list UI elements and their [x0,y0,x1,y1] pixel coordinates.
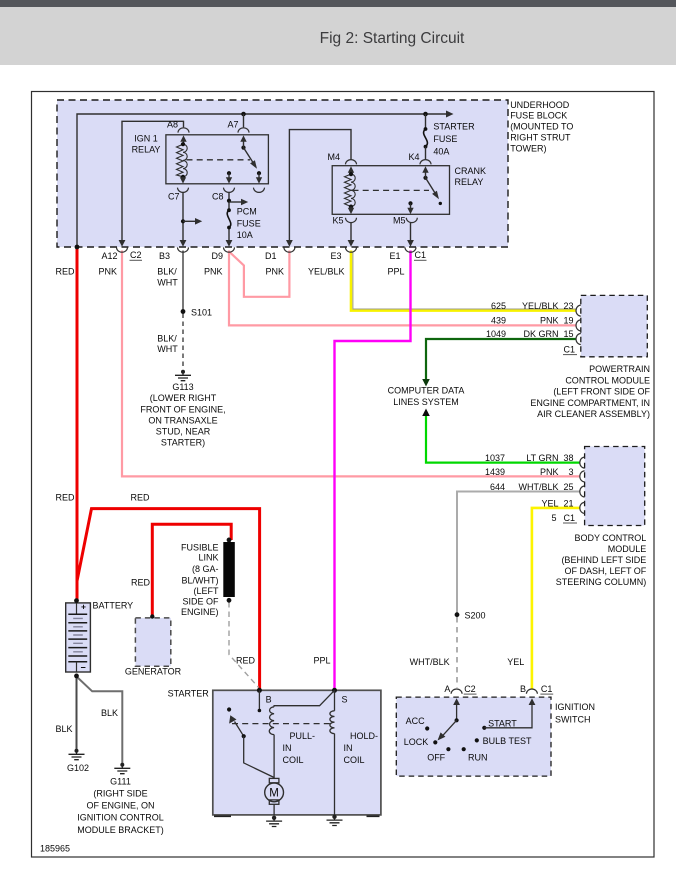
wire main feed [77,114,446,247]
relay CRANK switch blade [426,178,436,195]
ground G111 [120,763,124,767]
wire motor to ground [273,804,275,815]
svg-text:PULL-: PULL- [290,731,316,741]
svg-text:YEL/BLK: YEL/BLK [308,266,345,276]
svg-text:S: S [342,695,348,705]
arrow K5 out of relay [350,207,352,209]
arrow into pin D9 [226,240,233,247]
svg-text:A: A [444,684,450,694]
svg-text:SWITCH: SWITCH [555,715,591,725]
svg-text:439: 439 [491,315,506,325]
pull-in coil [269,707,274,735]
pin D1 cup [284,247,295,252]
relay box IGN 1 RELAY [166,135,269,184]
svg-text:FUSIBLE: FUSIBLE [181,543,219,553]
pin E1 cup [405,247,416,252]
module box BODY CONTROL MODULE [585,447,645,526]
svg-text:C1: C1 [564,513,576,523]
wire LT GRN BCM pin 38 to data lines [426,416,580,463]
pin M4 cup [346,160,357,165]
svg-text:1049: 1049 [486,329,506,339]
wire RED battery to starter B [77,509,260,690]
svg-text:A7: A7 [227,119,238,129]
pin K5 cup [346,218,357,223]
svg-text:ENGINE COMPARTMENT, IN: ENGINE COMPARTMENT, IN [530,398,650,408]
pin 3 cup [580,471,585,482]
pin E3 cup [346,247,357,252]
svg-text:RUN: RUN [468,753,488,763]
svg-text:STEERING COLUMN): STEERING COLUMN) [556,577,647,587]
module box POWERTRAIN CONTROL MODULE [581,295,648,356]
svg-text:IGNITION: IGNITION [555,702,595,712]
node ACC [425,726,429,730]
header dark bar [0,0,676,7]
wire PPL E1 to starter S [335,251,411,691]
svg-text:1037: 1037 [485,453,505,463]
pin A12 cup [117,247,128,252]
hold-in coil [330,711,335,734]
svg-text:FUSE BLOCK: FUSE BLOCK [510,111,567,121]
svg-text:E3: E3 [330,251,341,261]
svg-text:IN: IN [344,743,353,753]
svg-text:COMPUTER DATA: COMPUTER DATA [388,386,465,396]
svg-text:15: 15 [563,329,573,339]
svg-text:IN: IN [283,743,292,753]
svg-text:D9: D9 [211,251,223,261]
svg-text:WHT/BLK: WHT/BLK [410,657,450,667]
pin 21 cup [580,502,585,513]
svg-text:COIL: COIL [283,755,304,765]
svg-text:G102: G102 [67,763,89,773]
relay CRANK switch pivot [423,176,427,180]
svg-text:PCM: PCM [237,207,257,217]
generator box [135,618,170,666]
svg-text:21: 21 [563,498,573,508]
svg-text:E1: E1 [389,251,400,261]
arrow K4 into relay [425,172,427,178]
svg-text:UNDERHOOD: UNDERHOOD [510,100,570,110]
relay IGN1 switch blade [244,148,254,164]
relay CRANK contact M5 [408,201,412,205]
svg-text:FUSE: FUSE [433,134,457,144]
svg-text:BATTERY: BATTERY [93,600,134,610]
pin A7 cup [238,128,249,133]
svg-text:C7: C7 [168,191,180,201]
fuse PCM FUSE 10A [227,208,231,212]
node red tap [75,245,80,250]
wire PNK A12 to BCM pin 3 [122,251,580,477]
svg-text:PNK: PNK [540,467,559,477]
svg-text:625: 625 [491,301,506,311]
node RUN [462,747,466,751]
relay CRANK contact NO [439,202,442,205]
svg-text:OF ENGINE, ON: OF ENGINE, ON [86,801,154,811]
svg-text:RELAY: RELAY [132,144,161,154]
arrow A7 into relay [243,141,245,148]
wire BLK battery to G102 [76,677,78,749]
svg-text:YEL: YEL [507,657,524,667]
svg-text:START: START [488,719,517,729]
arrow C8 continues right [229,201,242,203]
svg-text:RIGHT STRUT: RIGHT STRUT [510,133,571,143]
svg-text:STARTER): STARTER) [161,437,205,447]
node fusible link top [227,538,232,543]
arrow up data lines [422,409,430,417]
svg-text:OF DASH, LEFT OF: OF DASH, LEFT OF [564,566,646,576]
svg-text:PPL: PPL [387,266,404,276]
relay IGN1 contact NO [257,171,261,175]
svg-text:LINK: LINK [198,553,218,563]
svg-text:23: 23 [563,301,573,311]
arrow C7 continues right [183,220,196,222]
svg-text:WHT/BLK: WHT/BLK [518,482,558,492]
starter dashed bar [232,723,334,725]
relay coil IGN1 zigzag [177,144,184,177]
fusible link bar [223,542,235,597]
svg-text:WHT: WHT [157,277,178,287]
svg-text:WHT: WHT [157,344,178,354]
battery plates [76,603,78,614]
svg-text:SIDE OF: SIDE OF [182,597,219,607]
svg-text:CRANK: CRANK [455,166,487,176]
node BULB TEST [475,738,479,742]
header gray bar [0,7,676,65]
svg-text:PNK: PNK [265,266,284,276]
svg-text:RED: RED [236,656,256,666]
pin 23 cup [576,305,581,316]
battery BATTERY [66,603,91,672]
pin 15 cup [576,334,581,345]
svg-text:19: 19 [563,315,573,325]
wire starter fuse drop [425,114,427,129]
arrow C7 out of relay [182,177,184,179]
svg-text:(MOUNTED TO: (MOUNTED TO [510,122,573,132]
svg-text:STARTER: STARTER [168,689,210,699]
pin C8 cup [224,188,235,193]
wire A7 drop [243,114,245,127]
relay IGN1 switch pivot [241,146,245,150]
wire RED generator / fusible link branch [152,524,231,616]
svg-text:A8: A8 [167,119,178,129]
svg-text:ACC: ACC [406,716,426,726]
arrow into pin E1 [407,240,414,247]
arrow into pin A12 [119,240,126,247]
node OFF [446,747,450,751]
svg-text:+: + [81,602,86,612]
svg-text:A12: A12 [101,251,117,261]
svg-text:S101: S101 [191,307,212,317]
pin 25 cup [580,486,585,497]
wire K5 to E3 [350,223,352,241]
svg-text:GENERATOR: GENERATOR [125,667,182,677]
svg-text:K5: K5 [332,215,343,225]
svg-text:YEL/BLK: YEL/BLK [522,301,559,311]
relay CRANK dashed bar [353,189,430,191]
svg-text:PNK: PNK [540,315,559,325]
wire pull-in coil to motor [273,735,275,779]
svg-text:644: 644 [490,482,505,492]
pin 38 cup [580,457,585,468]
wire BLK/WHT dashed S101 to G113 [182,314,184,370]
svg-text:C1: C1 [415,250,427,260]
node S200 [455,612,460,617]
wire RED battery feed [76,248,79,601]
svg-text:TOWER): TOWER) [510,143,546,153]
pin C7 cup [178,188,189,193]
node C7 branch [181,219,185,223]
wire dashed fusible link to starter B [229,602,259,688]
hold-in coil feed [334,690,336,711]
node crank coil top [349,172,353,176]
svg-text:BLK/: BLK/ [157,266,177,276]
wire START to pin B [484,705,532,728]
wire BLK battery to G111 [77,677,123,764]
node generator terminal [150,614,154,618]
node crank coil bottom [349,205,353,209]
svg-text:OFF: OFF [427,753,445,763]
node coil bottom [181,175,185,179]
svg-text:C8: C8 [212,191,224,201]
svg-text:M: M [269,788,279,800]
svg-text:LOCK: LOCK [404,737,429,747]
arrow into pin E3 [348,240,355,247]
svg-text:LT GRN: LT GRN [526,453,558,463]
starter B stud [258,690,260,709]
svg-text:RED: RED [131,578,151,588]
svg-text:G111: G111 [110,776,131,786]
node A7 tap [241,112,246,117]
arrow into pin A [456,705,458,721]
wire switch to motor [244,736,274,777]
pin K4 cup [420,160,431,165]
svg-text:(LEFT: (LEFT [193,586,219,596]
ground G113 [181,370,185,374]
svg-text:5: 5 [551,513,556,523]
wire YEL BCM pin 21 to ignition B [532,508,580,689]
svg-text:YEL: YEL [541,498,558,508]
svg-text:IGNITION CONTROL: IGNITION CONTROL [77,813,164,823]
ignition switch blade to LOCK [443,720,457,736]
svg-text:BLK: BLK [101,708,118,718]
arrow feed continues right [446,111,454,118]
svg-text:HOLD-: HOLD- [350,731,378,741]
svg-text:(LEFT FRONT SIDE OF: (LEFT FRONT SIDE OF [553,387,650,397]
ignition switch box [396,697,551,776]
underhood fuse block box [57,100,508,247]
svg-text:AIR CLEANER ASSEMBLY): AIR CLEANER ASSEMBLY) [537,409,650,419]
svg-text:LINES SYSTEM: LINES SYSTEM [393,397,459,407]
fuse STARTER FUSE 40A [424,127,428,131]
motor M [269,778,279,782]
svg-text:RED: RED [55,493,75,503]
svg-text:3: 3 [568,467,573,477]
svg-text:Fig 2: Starting Circuit: Fig 2: Starting Circuit [320,30,465,47]
pin M5 cup [406,218,417,223]
starter box corner marks [214,815,380,817]
svg-text:B3: B3 [159,251,170,261]
wire PNK D9 to PCM pin 19 [229,251,576,326]
relay box CRANK RELAY [332,166,449,215]
arrow into pin D1 [286,240,293,247]
svg-text:MODULE BRACKET): MODULE BRACKET) [77,825,164,835]
svg-text:40A: 40A [433,146,449,156]
node coil top [181,142,185,146]
relay coil CRANK arcs [351,174,355,206]
svg-text:BL/WHT): BL/WHT) [182,576,219,586]
relay IGN1 dashed bar [187,159,251,161]
pin B cup [526,689,537,694]
pin 19 cup [576,320,581,331]
svg-text:PNK: PNK [204,266,223,276]
ground starter hold coil [332,815,336,819]
svg-text:DK GRN: DK GRN [523,329,558,339]
svg-text:B: B [520,684,526,694]
wire YEL/BLK E3 to PCM pin 23 [351,251,576,311]
svg-text:25: 25 [563,482,573,492]
pin A cup [451,689,462,694]
svg-text:BULB TEST: BULB TEST [483,736,532,746]
svg-text:S200: S200 [465,610,486,620]
svg-text:C2: C2 [464,684,476,694]
ground G102 [75,749,79,753]
svg-text:CONTROL MODULE: CONTROL MODULE [565,375,650,385]
arrow into pin B3 [180,240,187,247]
pin A8 cup [178,128,189,133]
svg-text:C1: C1 [541,684,553,694]
svg-text:(RIGHT SIDE: (RIGHT SIDE [93,789,147,799]
node starter S [332,688,337,693]
svg-text:RELAY: RELAY [455,177,484,187]
svg-text:COIL: COIL [344,755,365,765]
svg-text:K4: K4 [408,152,419,162]
wire C8 to D9 [228,192,230,240]
svg-text:STARTER: STARTER [433,122,475,132]
svg-text:1439: 1439 [485,467,505,477]
relay coil IGN1 arcs [183,144,187,177]
pin B3 cup [178,247,189,252]
pin D9 cup [224,247,235,252]
svg-text:B: B [266,695,272,705]
svg-text:10A: 10A [237,230,253,240]
svg-text:BLK/: BLK/ [157,333,177,343]
wire C7 to B3 [182,192,184,240]
svg-text:PNK: PNK [98,266,117,276]
svg-text:ON TRANSAXLE: ON TRANSAXLE [148,415,217,425]
wire PNK jumper D9 to D1 [229,251,289,297]
svg-text:STUD, NEAR: STUD, NEAR [156,426,211,436]
svg-text:185965: 185965 [40,844,70,854]
svg-text:G113: G113 [172,382,193,392]
svg-text:ENGINE): ENGINE) [181,607,219,617]
node START [482,726,486,730]
svg-text:FUSE: FUSE [237,218,261,228]
starter switch contact [227,707,231,711]
svg-text:D1: D1 [265,251,277,261]
wire WHT/BLK dashed S200 to ignition A [456,617,458,688]
svg-text:M4: M4 [327,152,340,162]
svg-text:RED: RED [55,266,75,276]
svg-text:BLK: BLK [55,724,72,734]
wire S to pull-in coil [274,690,334,707]
starter box [213,690,381,815]
svg-text:C1: C1 [564,345,576,355]
starter switch blade [235,722,244,737]
node battery positive [74,598,79,603]
wire DK GRN PCM pin 15 to data lines [426,339,576,380]
svg-text:PPL: PPL [313,656,330,666]
pin NO cup [254,188,265,193]
node battery negative [74,674,79,679]
node LOCK [433,740,437,744]
wire M4 D1 branch [289,130,351,241]
svg-text:(LOWER RIGHT: (LOWER RIGHT [150,393,217,403]
arrow A8 into relay [183,141,185,144]
svg-text:(BEHIND LEFT SIDE: (BEHIND LEFT SIDE [561,555,646,565]
wire A12 A8 branch [122,121,184,240]
svg-text:IGN 1: IGN 1 [134,134,158,144]
svg-text:FRONT OF ENGINE,: FRONT OF ENGINE, [140,404,225,414]
arrow M4 into relay [350,172,352,174]
svg-text:MODULE: MODULE [608,544,647,554]
wire WHT/BLK BCM pin 25 to S200 [457,492,580,614]
node S101 [181,309,186,314]
svg-text:−: − [81,663,86,673]
wire BLK/WHT B3 to S101 [182,251,184,311]
svg-text:POWERTRAIN: POWERTRAIN [589,364,650,374]
node C8 branch [227,199,231,203]
relay coil CRANK zigzag [345,174,352,207]
svg-text:RED: RED [131,493,151,503]
arrow down data lines [422,379,430,387]
node fusible link bottom [227,598,232,603]
node starter B [257,688,262,693]
node starter fuse tap [423,112,428,117]
svg-text:(8 GA-: (8 GA- [192,564,219,574]
ground starter motor [272,816,276,820]
svg-text:38: 38 [563,453,573,463]
relay IGN1 contact C8 [227,171,231,175]
wire hold-in coil to ground [334,734,336,816]
svg-text:BODY CONTROL: BODY CONTROL [574,533,646,543]
svg-text:M5: M5 [393,215,406,225]
svg-text:C2: C2 [130,250,142,260]
wire M5 to E1 [410,223,412,241]
